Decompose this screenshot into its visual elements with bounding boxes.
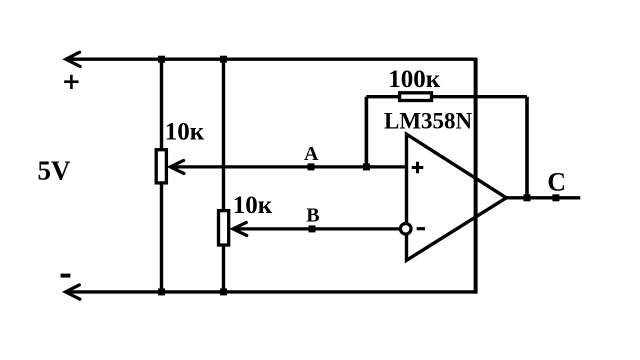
svg-text:C: C: [547, 168, 566, 197]
svg-text:10к: 10к: [165, 119, 205, 146]
wire right power rail: [474, 58, 478, 294]
arrow on bottom rail: [66, 285, 80, 299]
resistor R2 10k: [219, 211, 229, 245]
svg-text:5V: 5V: [38, 156, 72, 186]
node output feedback junction: [524, 194, 531, 201]
wire second branch with R2: [222, 59, 225, 292]
svg-text:10к: 10к: [233, 192, 273, 219]
wire input B row: [233, 227, 402, 230]
wire input A row: [170, 165, 406, 168]
node junction bottom rail / R1 branch: [158, 288, 165, 295]
wire bottom negative rail: [66, 290, 478, 293]
node feedback-A junction: [363, 163, 370, 170]
arrow on top rail: [66, 52, 80, 66]
node C junction: [552, 194, 559, 201]
node junction bottom rail / R2 branch: [220, 288, 227, 295]
svg-text:100к: 100к: [388, 66, 441, 93]
wire output C row: [506, 196, 580, 199]
node B junction: [309, 225, 316, 232]
resistor R3 100k: [400, 93, 432, 101]
wire top positive rail: [66, 58, 478, 61]
node A junction: [308, 163, 315, 170]
wire feedback left vertical: [365, 97, 369, 167]
svg-text:A: A: [304, 143, 319, 165]
arrow on input B: [233, 222, 247, 235]
resistor R1 10k: [156, 150, 166, 183]
wire left branch with R1: [160, 59, 163, 292]
op-amp U1 triangle: [407, 134, 507, 260]
svg-text:LM358N: LM358N: [384, 108, 473, 133]
label - negative terminal: [61, 274, 71, 278]
node junction top rail / R2 branch: [220, 56, 227, 63]
label + positive terminal: [64, 75, 78, 89]
op-amp non-inverting input marker +: [412, 162, 424, 174]
wire feedback top row: [366, 95, 527, 98]
wire feedback right vertical: [525, 97, 529, 198]
svg-text:B: B: [306, 204, 319, 226]
arrow on input A: [170, 160, 184, 173]
op-amp inverting input marker -: [417, 227, 425, 230]
op-amp inverting input bubble: [400, 224, 411, 235]
node junction top rail / R1 branch: [158, 56, 165, 63]
